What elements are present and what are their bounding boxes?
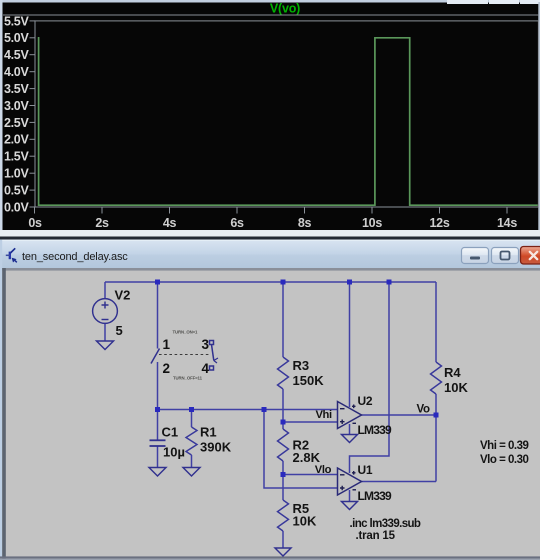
svg-text:2.5V: 2.5V xyxy=(4,116,29,130)
svg-text:5: 5 xyxy=(116,323,123,338)
svg-text:10K: 10K xyxy=(444,380,468,395)
svg-text:0.5V: 0.5V xyxy=(4,184,29,198)
svg-text:V(vo): V(vo) xyxy=(270,2,300,16)
svg-text:ten_second_delay.asc: ten_second_delay.asc xyxy=(22,251,128,263)
svg-text:R1: R1 xyxy=(200,425,217,440)
svg-text:390K: 390K xyxy=(200,440,232,455)
svg-text:2: 2 xyxy=(163,361,171,376)
svg-text:0.0V: 0.0V xyxy=(4,200,29,214)
svg-text:Vlo: Vlo xyxy=(315,464,332,476)
svg-text:R4: R4 xyxy=(444,365,461,380)
svg-text:10µ: 10µ xyxy=(163,445,185,460)
svg-text:1: 1 xyxy=(163,337,171,352)
svg-text:Vlo = 0.30: Vlo = 0.30 xyxy=(480,454,528,466)
svg-text:3: 3 xyxy=(202,337,210,352)
svg-text:4.5V: 4.5V xyxy=(4,48,29,62)
svg-text:10K: 10K xyxy=(293,514,317,529)
svg-text:Vhi: Vhi xyxy=(316,409,332,421)
svg-text:2s: 2s xyxy=(95,216,109,230)
svg-text:150K: 150K xyxy=(293,373,325,388)
svg-text:Vhi = 0.39: Vhi = 0.39 xyxy=(480,440,528,452)
svg-text:4.0V: 4.0V xyxy=(4,65,29,79)
svg-text:12s: 12s xyxy=(430,216,450,230)
svg-text:C1: C1 xyxy=(162,425,179,440)
svg-text:1.0V: 1.0V xyxy=(4,167,29,181)
svg-text:10s: 10s xyxy=(362,216,382,230)
svg-text:V2: V2 xyxy=(115,288,131,303)
svg-text:TURN_ON=1: TURN_ON=1 xyxy=(173,330,198,335)
svg-text:2.0V: 2.0V xyxy=(4,133,29,147)
svg-text:14s: 14s xyxy=(497,216,517,230)
svg-text:R3: R3 xyxy=(293,358,310,373)
svg-text:0s: 0s xyxy=(28,216,42,230)
svg-text:4s: 4s xyxy=(163,216,177,230)
svg-text:8s: 8s xyxy=(298,216,312,230)
svg-text:LM339: LM339 xyxy=(358,489,392,503)
svg-text:5.5V: 5.5V xyxy=(4,14,29,28)
svg-text:LM339: LM339 xyxy=(358,423,392,437)
svg-text:U1: U1 xyxy=(358,463,373,477)
svg-text:2.8K: 2.8K xyxy=(293,450,321,465)
svg-text:.inc lm339.sub: .inc lm339.sub xyxy=(350,518,421,530)
svg-text:1.5V: 1.5V xyxy=(4,150,29,164)
svg-text:4: 4 xyxy=(202,361,210,376)
svg-text:6s: 6s xyxy=(230,216,244,230)
svg-text:U2: U2 xyxy=(358,394,373,408)
svg-text:3.5V: 3.5V xyxy=(4,82,29,96)
svg-text:5.0V: 5.0V xyxy=(4,31,29,45)
svg-text:3.0V: 3.0V xyxy=(4,99,29,113)
svg-text:TURN_OFF=11: TURN_OFF=11 xyxy=(173,376,203,381)
svg-text:Vo: Vo xyxy=(417,404,431,416)
svg-text:.tran 15: .tran 15 xyxy=(356,530,396,542)
